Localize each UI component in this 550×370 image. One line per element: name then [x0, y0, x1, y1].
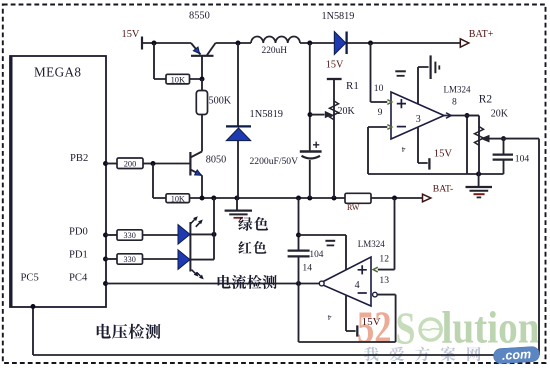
svg-text:10K: 10K	[171, 75, 185, 84]
svg-text:220uH: 220uH	[262, 46, 288, 56]
svg-text:104: 104	[515, 154, 530, 165]
svg-text:15V: 15V	[326, 59, 344, 70]
svg-text:8550: 8550	[189, 11, 210, 22]
svg-text:15V: 15V	[434, 149, 453, 160]
svg-text:20K: 20K	[491, 108, 509, 119]
svg-text:8050: 8050	[206, 154, 226, 165]
svg-text:.com: .com	[502, 347, 532, 363]
svg-text:BAT-: BAT-	[433, 184, 453, 195]
svg-text:20K: 20K	[338, 106, 356, 117]
svg-text:8: 8	[452, 97, 457, 108]
svg-text:BAT+: BAT+	[469, 29, 494, 40]
svg-text:PC5: PC5	[21, 273, 39, 284]
svg-text:3: 3	[416, 114, 421, 125]
svg-text:4: 4	[355, 280, 360, 291]
svg-text:PD0: PD0	[69, 226, 88, 237]
svg-text:R2: R2	[479, 93, 493, 105]
svg-text:330: 330	[124, 255, 136, 264]
svg-text:lution: lution	[442, 302, 540, 353]
svg-text:MEGA8: MEGA8	[34, 65, 81, 80]
svg-text:4: 4	[328, 313, 332, 322]
svg-text:4: 4	[402, 145, 406, 154]
svg-text:15V: 15V	[122, 29, 140, 40]
svg-text:330: 330	[124, 231, 136, 240]
svg-text:RW: RW	[347, 203, 360, 212]
svg-text:PD1: PD1	[69, 250, 88, 261]
svg-text:104: 104	[309, 250, 323, 260]
svg-text:R1: R1	[346, 80, 359, 92]
svg-text:LM324: LM324	[358, 239, 386, 249]
svg-text:14: 14	[302, 262, 312, 273]
svg-text:500K: 500K	[209, 96, 232, 107]
svg-text:13: 13	[379, 275, 389, 286]
svg-text:15V: 15V	[362, 316, 381, 328]
svg-text:10: 10	[374, 83, 384, 94]
svg-text:PC4: PC4	[69, 273, 88, 284]
svg-text:10K: 10K	[171, 194, 185, 203]
svg-text:12: 12	[379, 253, 389, 264]
svg-text:1N5819: 1N5819	[250, 109, 283, 120]
svg-text:LM324: LM324	[444, 84, 472, 94]
svg-text:200: 200	[124, 159, 137, 168]
svg-text:2200uF/50V: 2200uF/50V	[250, 156, 299, 167]
svg-text:S: S	[396, 303, 416, 354]
svg-text:PB2: PB2	[70, 153, 88, 164]
svg-text:1N5819: 1N5819	[322, 11, 355, 22]
svg-text:9: 9	[378, 107, 383, 118]
